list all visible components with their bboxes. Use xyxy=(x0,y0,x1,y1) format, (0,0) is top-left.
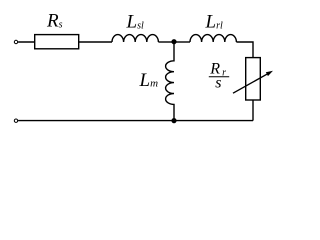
svg-text:Rs: Rs xyxy=(46,10,63,31)
inductor L_rl xyxy=(190,35,236,42)
svg-text:Lrl: Lrl xyxy=(205,11,223,32)
svg-text:Lsl: Lsl xyxy=(126,11,144,32)
terminal (bottom-left input) xyxy=(14,119,17,122)
label R_r/s (fraction) xyxy=(209,61,229,92)
svg-text:s: s xyxy=(215,75,221,92)
arrow (variable-resistor indicator) xyxy=(233,73,269,93)
wire (L_rl to top-right corner, down to R_r/s) xyxy=(236,42,253,58)
terminal (top-left input) xyxy=(14,40,17,43)
wire (terminal to R_s) xyxy=(18,41,35,43)
wire (node A to L_rl) xyxy=(174,41,190,43)
resistor R_r/s (variable) xyxy=(246,58,261,100)
svg-text:Lm: Lm xyxy=(139,70,159,91)
node B (bottom junction) xyxy=(171,118,176,123)
wire (R_r/s to bottom rail) xyxy=(252,100,254,121)
inductor L_sl xyxy=(112,35,158,42)
node A (top junction) xyxy=(171,39,176,44)
resistor R_s xyxy=(35,35,79,49)
wire (L_sl to node A) xyxy=(158,41,174,43)
wire (bottom rail) xyxy=(18,120,253,122)
inductor L_m (magnetizing branch) xyxy=(166,42,174,121)
wire (R_s to L_sl) xyxy=(79,41,112,43)
